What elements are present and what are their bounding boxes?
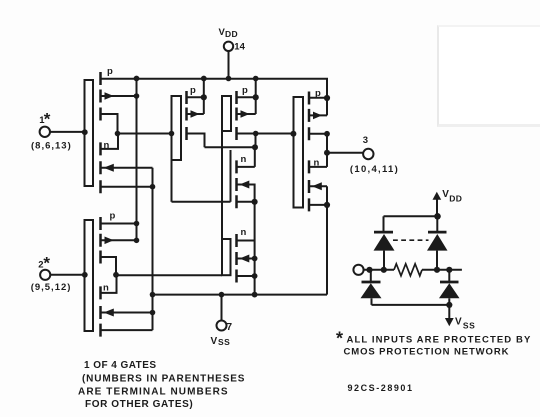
wire Q6 source to rail x=255.7 xyxy=(255,79,257,115)
transistor Q9 p xyxy=(309,88,327,140)
svg-text:n: n xyxy=(103,283,109,294)
svg-text:V: V xyxy=(442,189,449,200)
transistor Q7 n xyxy=(237,154,255,208)
transistor Q5 p xyxy=(187,85,205,147)
svg-text:SS: SS xyxy=(463,320,476,330)
svg-text:p: p xyxy=(110,211,116,222)
svg-text:14: 14 xyxy=(234,42,245,53)
svg-text:n: n xyxy=(241,154,247,165)
svg-text:*: * xyxy=(43,253,50,272)
wire n-stack bus x=253.5 xyxy=(254,202,256,295)
wire gate riser x=222 (B-bar to Q6 gate) xyxy=(221,96,223,275)
terminal input 2 (9,5,12) xyxy=(31,253,85,293)
svg-text:92CS-28901: 92CS-28901 xyxy=(348,383,414,393)
svg-text:(NUMBERS IN PARENTHESES: (NUMBERS IN PARENTHESES xyxy=(82,374,245,385)
wire node B-bar (inverter 2 output) xyxy=(116,274,222,276)
wire VDD rail xyxy=(100,79,328,116)
wire VSS bus x=152.5 xyxy=(152,168,154,330)
wire VDD bus x=136.5 xyxy=(136,79,138,241)
svg-text:V: V xyxy=(211,336,218,347)
svg-text:DD: DD xyxy=(449,194,462,204)
svg-text:n: n xyxy=(241,227,247,238)
svg-text:1 OF 4 GATES: 1 OF 4 GATES xyxy=(84,360,156,371)
diode D1 (upper left) xyxy=(374,216,395,269)
white overlay box top-right xyxy=(437,25,540,127)
wire protection input line xyxy=(364,269,462,271)
svg-text:p: p xyxy=(107,66,113,77)
wire protection bottom rail xyxy=(372,304,450,306)
transistor Q3 p xyxy=(101,211,137,276)
svg-text:SS: SS xyxy=(218,337,230,347)
wire gate link y=201.8 (to Q7 gate) xyxy=(172,201,231,203)
svg-text:DD: DD xyxy=(225,29,238,39)
gate bar Q1/Q2 (input 1) xyxy=(85,80,94,186)
terminal input 1 (8,6,13) xyxy=(31,110,85,152)
svg-text:V: V xyxy=(455,316,462,327)
diode D2 (upper right) xyxy=(427,216,448,269)
transistor Q6 p xyxy=(237,85,256,140)
terminal VDD pin 14 xyxy=(219,27,246,79)
gate bar Q6 p4 xyxy=(222,96,231,131)
protection network: input terminal xyxy=(353,265,363,275)
svg-text:p: p xyxy=(190,85,196,96)
svg-text:CMOS PROTECTION NETWORK: CMOS PROTECTION NETWORK xyxy=(344,347,510,358)
svg-text:*: * xyxy=(44,110,51,129)
diode D4 (lower right) xyxy=(439,270,460,305)
wire dashed link D1-D2 xyxy=(393,239,429,241)
terminal output 3 (10,4,11) xyxy=(327,135,399,175)
note: 1 of 4 gates xyxy=(78,360,245,410)
transistor Q10 n xyxy=(309,158,327,212)
gate bar Q7 n5 xyxy=(230,150,232,202)
svg-text:ALL INPUTS ARE PROTECTED BY: ALL INPUTS ARE PROTECTED BY xyxy=(347,335,532,346)
svg-text:7: 7 xyxy=(227,322,233,333)
transistor Q1 p xyxy=(101,66,137,134)
wire Q10 source to VSS rail xyxy=(326,186,328,294)
wire output node x=327 xyxy=(326,134,328,167)
svg-text:p: p xyxy=(242,85,248,96)
svg-text:(9,5,12): (9,5,12) xyxy=(31,282,72,293)
terminal VDD (protection) xyxy=(433,189,463,217)
svg-text:3: 3 xyxy=(363,135,368,146)
terminal VSS pin 7 xyxy=(211,295,233,348)
wire drain link y=147.2 xyxy=(205,146,255,148)
svg-text:(8,6,13): (8,6,13) xyxy=(31,141,72,152)
transistor Q8 n xyxy=(237,227,255,283)
gate bar Q9/Q10 (output stage) xyxy=(294,97,304,208)
wire node A-bar (inverter 1 output) xyxy=(118,133,172,135)
gate bar Q8 n6 xyxy=(222,239,231,275)
gate bar Q5 p3 xyxy=(172,96,182,202)
transistor Q4 n xyxy=(101,275,153,336)
diode D3 (lower left) xyxy=(361,270,382,305)
wire VSS rail xyxy=(153,294,328,296)
transistor Q2 n xyxy=(101,134,153,194)
svg-text:(10,4,11): (10,4,11) xyxy=(350,164,399,175)
terminal VSS (protection) xyxy=(445,305,476,330)
resistor R1 xyxy=(394,264,422,276)
note: all inputs protected xyxy=(336,329,531,358)
wire protection top rail xyxy=(384,215,438,217)
svg-text:FOR OTHER GATES): FOR OTHER GATES) xyxy=(85,399,193,410)
svg-text:ARE TERMINAL NUMBERS: ARE TERMINAL NUMBERS xyxy=(78,387,229,398)
wire Q5 source to rail x=202 xyxy=(203,79,205,115)
svg-text:*: * xyxy=(336,329,343,349)
gate bar Q3/Q4 (input 2) xyxy=(85,220,94,331)
wire stage-2 output node xyxy=(255,134,294,167)
